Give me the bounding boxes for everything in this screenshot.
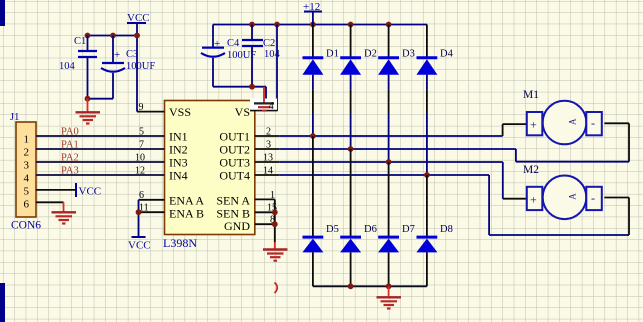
svg-text:2: 2 [266,127,271,138]
wire VCC rail to C1/C3 [88,35,138,37]
junction at C2 bottom [249,84,255,90]
svg-text:A: A [568,118,578,125]
wire OUT4 down and across to M2 - [489,175,629,235]
junction D1/OUT1 [310,133,316,139]
junction GND pin [272,221,278,227]
svg-text:-: - [591,191,595,205]
junction SEN B [272,209,278,215]
svg-text:104: 104 [264,49,281,60]
svg-text:+: + [530,118,537,132]
wire C4/C2 bottom [213,86,266,88]
ground below chip [263,242,288,261]
wire top rail (+12) [213,24,427,26]
svg-text:13: 13 [263,153,273,164]
sheet border segment top-left [0,0,5,26]
svg-text:GND: GND [224,219,250,233]
motor M1 [527,101,602,145]
svg-text:12: 12 [135,166,145,177]
svg-text:OUT3: OUT3 [219,156,250,170]
svg-text:SEN A: SEN A [216,194,250,208]
junction D3/OUT3 [386,159,392,165]
junction at C3 top [110,33,116,39]
wire OUT3 down to M2 + [503,162,528,199]
pin 13 wire+net OUT3 [255,161,279,163]
wire +12 down to VS pin [276,25,278,112]
svg-text:VCC: VCC [128,240,151,252]
junction D4/OUT4 [424,172,430,178]
diode D5 [302,136,323,286]
wire J1 pin6 to ground [36,201,64,203]
IC U1 L298N body [165,101,255,235]
svg-text:3: 3 [24,160,30,172]
svg-text:C2: C2 [263,38,275,49]
red arc artifact [275,283,278,294]
pin 2 wire+net OUT1 [255,135,279,137]
wire PA2 net [36,161,165,163]
wire down to ground near pin 4 [265,87,267,99]
svg-text:CON6: CON6 [11,220,41,232]
wire C1/C3 bottom [88,98,114,100]
svg-text:ENA B: ENA B [169,207,204,221]
svg-text:10: 10 [135,153,145,164]
svg-text:PA1: PA1 [61,140,79,151]
svg-text:A: A [568,193,578,200]
svg-text:VS: VS [235,105,250,119]
svg-text:D6: D6 [364,224,377,235]
svg-text:C3: C3 [126,49,138,60]
capacitor C1 [78,36,97,99]
pin 6 wire (ENA A) [139,199,165,201]
svg-text:5: 5 [139,127,144,138]
motor M2 [527,176,602,220]
junction D6 on bottom rail [348,283,354,289]
svg-text:D2: D2 [364,49,377,60]
sheet border segment bottom-left [0,283,5,322]
pin 8 wire (GND) [255,223,275,225]
wire VCC down to pin 9 [136,36,138,112]
svg-text:D5: D5 [326,224,339,235]
junction at C1 bottom [85,96,91,102]
svg-text:D1: D1 [326,49,339,60]
diode D1 [302,25,323,137]
wire OUT2 step down and across to M1 - [516,123,629,161]
capacitor C3 [101,36,125,99]
junction D2 column [348,22,354,28]
svg-text:C1: C1 [74,36,86,47]
pin 11 wire (ENA B) [139,211,165,213]
svg-text:+: + [114,49,120,61]
svg-text:IN4: IN4 [169,169,188,183]
svg-text:L398N: L398N [163,236,197,250]
svg-text:IN3: IN3 [169,156,188,170]
svg-text:PA3: PA3 [61,166,79,177]
svg-text:6: 6 [139,190,144,201]
svg-text:D8: D8 [440,224,453,235]
diode D8 [416,175,437,286]
wire SEN/GND down [274,199,276,242]
diode D7 [378,162,399,286]
pin 15 wire (SEN B) [255,211,275,213]
svg-text:IN1: IN1 [169,130,188,144]
svg-text:D7: D7 [402,224,415,235]
wire PA0 net [36,135,165,137]
svg-text:J1: J1 [10,112,19,123]
svg-text:3: 3 [266,140,271,151]
ground below C1/C3 [76,99,101,124]
pin 1 wire (SEN A) [255,198,275,200]
connector J1 body [16,122,36,217]
svg-text:OUT1: OUT1 [219,130,250,144]
svg-text:OUT4: OUT4 [219,169,250,183]
svg-text:PA2: PA2 [61,153,79,164]
svg-text:-: - [591,116,595,130]
junction ENA B [136,209,142,215]
svg-text:VCC: VCC [79,186,102,198]
power port VCC (top) [127,12,150,36]
pin 9 wire (VSS) [137,111,165,113]
pin 3 wire+net OUT2 [255,148,279,150]
svg-text:104: 104 [59,61,76,72]
svg-text:PA0: PA0 [61,127,79,138]
power port +12 [303,1,322,25]
diode D4 [416,25,437,176]
wire J1 pin5 to VCC [36,189,76,191]
svg-text:C4: C4 [227,38,240,49]
svg-text:14: 14 [263,166,273,177]
wire bottom rail [313,285,427,287]
svg-text:9: 9 [139,102,144,113]
junction VS column on rail [274,22,280,28]
svg-text:ENA A: ENA A [169,194,204,208]
pin 14 wire+net OUT4 [255,174,279,176]
ground at bottom rail [377,286,402,308]
svg-text:4: 4 [269,101,275,112]
diode D3 [378,25,399,163]
wire ENA A/B to VCC [138,200,140,237]
svg-text:D3: D3 [402,49,415,60]
svg-text:VSS: VSS [169,105,191,119]
svg-text:4: 4 [24,173,30,185]
wire PA1 net [36,148,165,150]
svg-text:D4: D4 [440,49,454,60]
ground at J1 pin6 [52,202,77,223]
svg-text:1: 1 [270,190,275,201]
svg-text:6: 6 [24,199,30,211]
junction at VCC stem [134,33,140,39]
diode D2 [340,25,361,150]
svg-text:+: + [214,38,220,50]
svg-text:7: 7 [139,140,144,151]
junction C2 column on rail [249,22,255,28]
svg-text:OUT2: OUT2 [219,143,250,157]
svg-text:100UF: 100UF [126,61,155,72]
svg-text:+: + [530,192,537,206]
junction D7 on bottom rail [386,283,392,289]
junction at C1 top [85,33,91,39]
svg-text:1: 1 [24,134,30,146]
wire PA3 net [36,174,165,176]
capacitor C4 [201,25,225,87]
junction D1 / +12 [310,22,316,28]
wire OUT1 step up to M1 + [503,124,527,136]
power port VCC (J1 pin5) [76,183,101,198]
svg-text:M1: M1 [523,89,539,101]
svg-text:2: 2 [24,147,30,159]
junction D2/OUT2 [348,146,354,152]
ground at VS/C4 (pin 4) [254,87,274,111]
white patch near pin 4 [250,99,278,112]
diode D6 [340,149,361,286]
svg-text:M2: M2 [523,164,539,176]
power port VCC (ENA) [128,237,151,252]
capacitor C2 [242,25,263,87]
svg-text:IN2: IN2 [169,143,188,157]
svg-text:5: 5 [24,186,30,198]
junction D3 column [386,22,392,28]
